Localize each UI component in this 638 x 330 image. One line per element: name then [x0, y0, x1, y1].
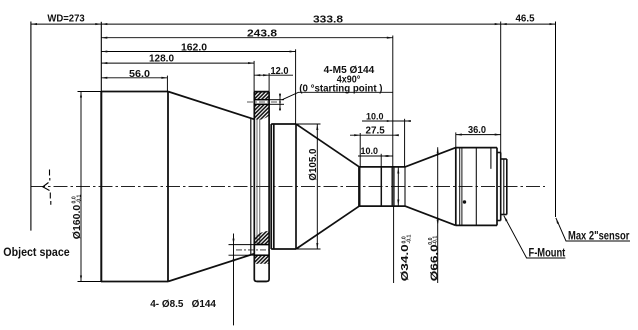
O8.5 hole axis: [236, 249, 272, 251]
dim O34: [397, 168, 399, 206]
flange O144: [254, 92, 269, 282]
svg-text:128.0: 128.0: [149, 54, 174, 65]
dim 27.5: [350, 133, 399, 167]
svg-text:Ø66.0: Ø66.0: [429, 244, 440, 282]
hub front face: [250, 119, 252, 255]
rear barrel O66: [456, 148, 497, 226]
svg-text:Ø34.0: Ø34.0: [400, 244, 411, 282]
svg-text:Max 2"sensor: Max 2"sensor: [568, 231, 630, 243]
dim 10.0 upper: [362, 119, 411, 167]
leader 0 starting point: [282, 92, 393, 100]
dim 56.0: [101, 76, 167, 92]
svg-text:46.5: 46.5: [516, 14, 535, 25]
dim 12.0: [254, 73, 293, 92]
svg-text:-0.1: -0.1: [433, 236, 439, 245]
rear ring: [497, 153, 501, 221]
svg-text:12.0: 12.0: [271, 66, 289, 77]
F-Mount label: [504, 216, 566, 258]
dim 36.0: [456, 132, 501, 147]
object plane line: [30, 22, 32, 231]
small barrel O34 with rings: [359, 167, 405, 206]
Max 2 sensor label: [556, 218, 630, 241]
svg-text:243.8: 243.8: [247, 28, 278, 39]
set screw dot: [463, 200, 466, 203]
cone O34 to O66: [405, 148, 456, 226]
sensor plane line: [555, 22, 557, 218]
dim O160: [78, 92, 102, 282]
svg-text:Ø105.0: Ø105.0: [308, 148, 319, 180]
dim 10.0 lower: [358, 154, 393, 167]
centerline optical axis: [31, 186, 545, 188]
svg-text:36.0: 36.0: [468, 125, 486, 136]
svg-text:Ø160.0: Ø160.0: [72, 204, 83, 239]
dim O66: [437, 147, 439, 283]
svg-text:-0.1: -0.1: [76, 194, 82, 203]
dim row top WD=273 333.8 46.5: [31, 22, 556, 153]
dim 162.0: [101, 49, 295, 124]
cone O105 to O34: [296, 124, 359, 249]
svg-text:(0 °starting point ): (0 °starting point ): [299, 84, 382, 95]
M5 hole lines: [254, 100, 284, 105]
svg-text:162.0: 162.0: [181, 43, 207, 54]
svg-text:10.0: 10.0: [366, 112, 384, 123]
flange internal lines: [257, 120, 260, 245]
svg-text:10.0: 10.0: [361, 146, 379, 157]
flange hatch upper: [254, 92, 269, 120]
svg-text:333.8: 333.8: [313, 14, 344, 25]
svg-text:WD=273: WD=273: [47, 13, 85, 24]
svg-text:4- Ø8.5 Ø144: 4- Ø8.5 Ø144: [150, 299, 216, 310]
svg-text:-0.1: -0.1: [407, 234, 413, 243]
barrel O105: [271, 124, 296, 249]
F-mount bayonet: [501, 159, 507, 215]
svg-text:27.5: 27.5: [366, 125, 386, 136]
flange hatch lower: [254, 231, 269, 264]
dim 243.8: [101, 36, 393, 167]
front barrel O160: [101, 92, 168, 282]
dim O105: [296, 124, 321, 249]
O8.5 hole lines: [229, 245, 270, 256]
O8.5 mini dimension and leader: [233, 234, 235, 326]
M5 mini dimension: [279, 94, 281, 111]
leader O34 label: [393, 206, 395, 283]
M5 hole axis: [247, 101, 283, 103]
axis break zigzag: [43, 170, 51, 205]
svg-text:Object space: Object space: [3, 247, 69, 259]
svg-text:56.0: 56.0: [129, 69, 150, 80]
svg-text:F-Mount: F-Mount: [529, 247, 566, 259]
cone barrel to flange: [168, 92, 254, 282]
dim 128.0: [101, 61, 254, 92]
